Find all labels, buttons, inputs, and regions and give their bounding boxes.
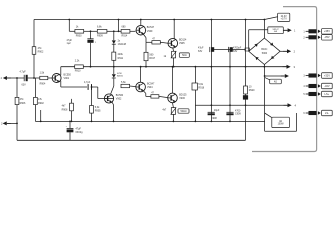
svg-text:50kΩ: 50kΩ [181, 110, 187, 113]
svg-text:R910: R910 [75, 70, 81, 73]
svg-text:-35V: -35V [324, 35, 330, 39]
svg-text:BC547: BC547 [147, 82, 155, 85]
svg-text:5,6k: 5,6k [198, 83, 203, 86]
svg-text:220k: 220k [118, 53, 124, 56]
svg-text:R920: R920 [249, 89, 255, 92]
svg-text:10μF: 10μF [214, 109, 220, 112]
svg-text:R908: R908 [62, 108, 68, 111]
svg-text:B40C: B40C [261, 48, 267, 51]
svg-text:63V: 63V [198, 50, 203, 53]
svg-text:V905: V905 [179, 42, 185, 45]
svg-text:R904: R904 [40, 83, 46, 86]
svg-text:R902: R902 [38, 51, 44, 54]
svg-text:4k7: 4k7 [62, 105, 67, 108]
svg-text:BC550: BC550 [64, 74, 72, 77]
svg-text:5,3k: 5,3k [95, 106, 100, 109]
svg-text:V904: V904 [147, 86, 153, 89]
svg-text:R906: R906 [20, 102, 26, 105]
svg-text:V909: V909 [147, 30, 153, 33]
svg-text:63Vdg: 63Vdg [76, 131, 84, 134]
svg-text:C908: C908 [211, 117, 217, 120]
svg-text:BAT41: BAT41 [117, 75, 124, 78]
svg-text:-32V: -32V [324, 84, 330, 88]
svg-text:1,5k: 1,5k [40, 72, 45, 75]
svg-text:LS+: LS+ [325, 92, 330, 96]
svg-text:100W: 100W [278, 123, 285, 125]
svg-text:1μ2: 1μ2 [67, 42, 72, 45]
svg-text:+35V: +35V [324, 29, 330, 33]
svg-text:4Ω: 4Ω [274, 81, 277, 83]
svg-text:R903: R903 [76, 35, 82, 38]
svg-text:R917: R917 [149, 57, 155, 60]
svg-text:BC547: BC547 [147, 26, 155, 29]
svg-text:C909: C909 [235, 113, 241, 116]
svg-text:560: 560 [149, 53, 154, 56]
svg-text:R909: R909 [97, 35, 103, 38]
svg-text:BC560: BC560 [116, 94, 124, 97]
svg-text:R905: R905 [95, 110, 101, 113]
svg-text:BD125: BD125 [179, 93, 187, 96]
svg-text:1N4148: 1N4148 [118, 43, 127, 46]
svg-text:LS-: LS- [325, 111, 329, 115]
svg-text:2,2k: 2,2k [75, 60, 80, 63]
svg-text:R902: R902 [38, 102, 44, 105]
svg-text:680: 680 [122, 26, 127, 29]
svg-text:4,7μF: 4,7μF [20, 70, 27, 73]
svg-text:+0,7V: +0,7V [281, 18, 288, 20]
svg-text:5000: 5000 [262, 52, 268, 55]
svg-text:R918: R918 [198, 87, 204, 90]
svg-text:4,7μF: 4,7μF [84, 81, 91, 84]
svg-text:BD124: BD124 [179, 38, 187, 41]
svg-text:6,8k: 6,8k [97, 26, 102, 29]
svg-text:63V: 63V [233, 50, 238, 53]
svg-text:V901: V901 [64, 77, 70, 80]
svg-text:50Ω: 50Ω [182, 54, 187, 57]
svg-text:V906: V906 [179, 97, 185, 100]
svg-text:R914: R914 [122, 35, 128, 38]
svg-text:5,6k: 5,6k [121, 81, 126, 84]
svg-text:+32V: +32V [324, 73, 330, 77]
svg-text:R911: R911 [118, 57, 124, 60]
svg-text:4k7: 4k7 [162, 108, 167, 111]
svg-text:63V: 63V [22, 84, 27, 87]
svg-text:V902: V902 [116, 98, 122, 101]
